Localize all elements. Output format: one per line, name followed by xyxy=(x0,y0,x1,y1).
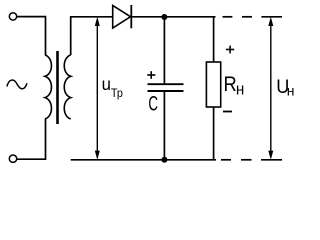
wire: primary bottom lead to bottom terminal xyxy=(17,119,46,159)
node: junction dot top (diode/capacitor) xyxy=(161,14,167,20)
node: junction dot bottom (capacitor/bottom rail) xyxy=(161,157,167,163)
svg-text:Тр: Тр xyxy=(111,88,123,101)
wire: capacitor bottom lead xyxy=(163,91,165,160)
AC source symbol (~) xyxy=(7,80,27,89)
resistor RH (load) xyxy=(206,62,220,107)
polarity + at resistor top xyxy=(226,46,234,54)
label UH xyxy=(276,75,294,98)
terminal X1 (top-left input) xyxy=(9,13,16,20)
svg-text:С: С xyxy=(148,91,158,115)
wire: capacitor top lead xyxy=(163,17,165,83)
svg-text:н: н xyxy=(236,80,244,99)
terminal X2 (bottom-left input) xyxy=(9,155,16,162)
measurement arrow UH (output voltage) xyxy=(268,17,273,160)
polarity + of capacitor xyxy=(147,71,155,79)
transformer T1 primary winding xyxy=(45,55,51,119)
transformer T1 secondary winding xyxy=(64,55,70,119)
svg-text:н: н xyxy=(287,83,295,99)
wire: top rail corner into resistor xyxy=(213,17,215,62)
label uTp xyxy=(102,73,123,100)
wire: top terminal to transformer primary xyxy=(17,17,46,55)
measurement arrow uTp (transformer voltage) xyxy=(95,17,100,160)
label RH xyxy=(224,72,245,98)
wire: bottom rail xyxy=(71,159,216,161)
wire: dashed extension top rail xyxy=(223,16,283,18)
wire: secondary top lead to diode anode xyxy=(71,17,113,55)
svg-text:u: u xyxy=(102,73,111,94)
polarity - at resistor bottom xyxy=(223,111,232,113)
transformer T1 core xyxy=(56,51,59,124)
svg-text:R: R xyxy=(224,72,237,96)
wire: resistor bottom lead xyxy=(213,107,215,160)
capacitor C (electrolytic, two plates) xyxy=(148,84,184,91)
diode VD1 xyxy=(113,5,132,28)
wire: dashed extension bottom rail xyxy=(221,159,282,161)
wire: diode cathode to load (top rail) xyxy=(131,16,216,18)
